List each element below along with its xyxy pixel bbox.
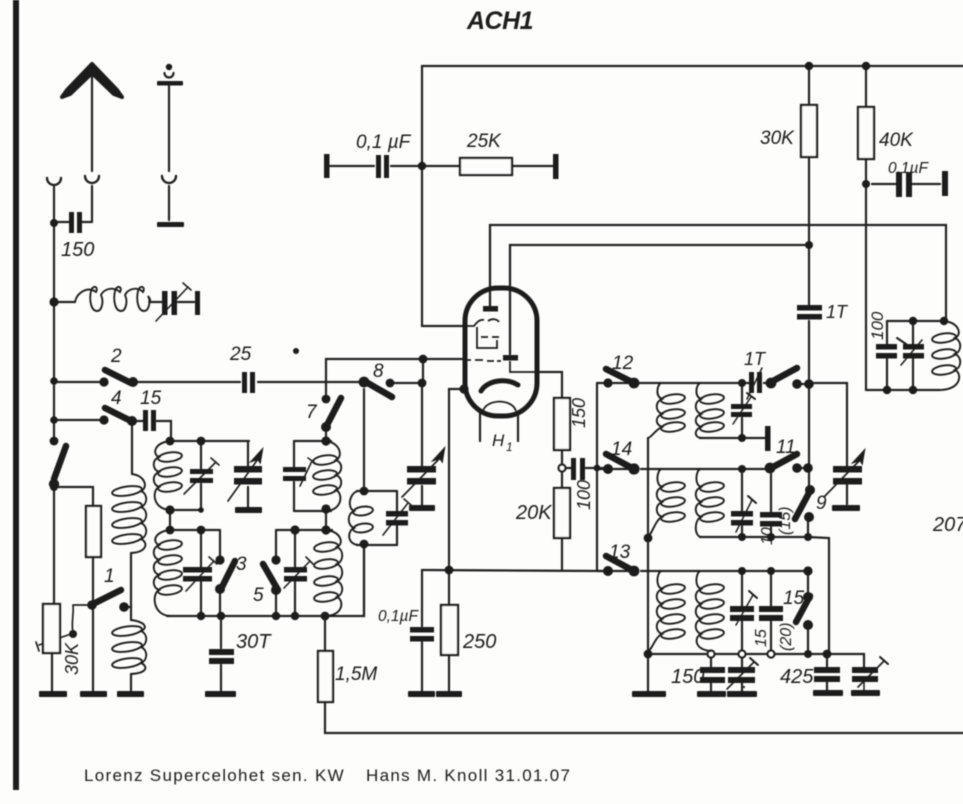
svg-text:H: H <box>492 431 505 450</box>
svg-text:15: 15 <box>783 588 805 609</box>
svg-text:1: 1 <box>104 566 115 587</box>
svg-text:1T: 1T <box>826 302 849 322</box>
svg-text:30T: 30T <box>236 631 272 653</box>
svg-text:150: 150 <box>569 398 589 428</box>
svg-text:20K: 20K <box>515 502 553 524</box>
svg-text:25K: 25K <box>466 131 502 152</box>
svg-text:150: 150 <box>61 239 94 261</box>
svg-text:100: 100 <box>868 311 887 340</box>
svg-text:13: 13 <box>609 542 631 563</box>
svg-text:40K: 40K <box>879 130 914 151</box>
svg-text:150: 150 <box>671 666 704 688</box>
svg-text:250: 250 <box>462 631 496 653</box>
svg-text:3: 3 <box>236 554 247 575</box>
svg-text:25: 25 <box>229 344 252 365</box>
svg-text:4: 4 <box>111 388 122 409</box>
svg-text:1T: 1T <box>744 349 767 369</box>
svg-text:30K: 30K <box>62 642 82 675</box>
svg-text:0,1µF: 0,1µF <box>378 608 419 625</box>
svg-text:10: 10 <box>759 527 776 545</box>
svg-text:7: 7 <box>306 402 318 423</box>
svg-text:9: 9 <box>816 493 827 514</box>
svg-text:ACH1: ACH1 <box>466 7 533 35</box>
svg-text:5: 5 <box>253 585 264 606</box>
svg-text:207: 207 <box>932 514 963 536</box>
svg-text:Lorenz Supercelohet sen. KW: Lorenz Supercelohet sen. KW <box>84 766 345 785</box>
svg-text:0,1µF: 0,1µF <box>888 160 929 177</box>
svg-text:(15): (15) <box>777 507 794 535</box>
svg-text:14: 14 <box>611 439 632 460</box>
svg-text:12: 12 <box>612 353 634 374</box>
svg-text:15: 15 <box>140 388 162 409</box>
svg-text:2: 2 <box>110 346 122 367</box>
svg-text:1: 1 <box>506 440 513 454</box>
svg-text:(20): (20) <box>778 623 795 651</box>
svg-text:11: 11 <box>776 437 796 458</box>
svg-text:425: 425 <box>780 666 814 688</box>
svg-text:30K: 30K <box>760 128 795 149</box>
svg-text:15: 15 <box>753 629 770 647</box>
svg-text:100: 100 <box>574 480 594 510</box>
svg-text:8: 8 <box>373 361 384 382</box>
svg-text:Hans M. Knoll 31.01.07: Hans M. Knoll 31.01.07 <box>366 766 571 785</box>
svg-text:0,1 µF: 0,1 µF <box>356 132 412 153</box>
svg-text:1,5M: 1,5M <box>335 664 377 685</box>
